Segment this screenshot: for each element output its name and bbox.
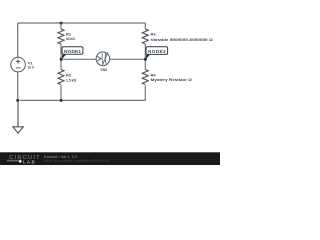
wire middle column between node and R2 [60, 59, 62, 69]
footer watermark bar [0, 152, 220, 165]
svg-text:NODE2: NODE2 [148, 49, 166, 54]
resistor R2 [58, 70, 64, 85]
resistor R4 [142, 70, 148, 85]
wire middle column R1 lead top [60, 24, 62, 30]
junction dot node B [144, 58, 147, 61]
wire right column R3 lead top [144, 24, 146, 29]
footer logo diamond [18, 159, 22, 163]
junction dot bottom of middle column [60, 99, 63, 102]
svg-text:Variable 5000000-6000000 Ω: Variable 5000000-6000000 Ω [151, 37, 214, 42]
junction dot ground [16, 99, 19, 102]
resistor R3 [142, 29, 148, 44]
wire top rail [18, 23, 146, 25]
svg-text:10 V: 10 V [28, 64, 35, 69]
wire bottom rail [20, 99, 146, 101]
junction dot node A [60, 58, 63, 61]
node NODE1 tag [61, 47, 83, 60]
wire voltmeter right segment [110, 58, 146, 60]
svg-text:VM1: VM1 [100, 67, 108, 72]
wire voltmeter left segment [61, 58, 96, 60]
voltmeter VM1 [96, 52, 110, 66]
svg-text:1.5 kΩ: 1.5 kΩ [66, 77, 77, 82]
svg-text:R3: R3 [151, 32, 157, 37]
wire middle column R2 lead bottom [60, 86, 62, 101]
footer logo waveform squiggle [7, 160, 19, 161]
node NODE2 tag [145, 47, 167, 60]
wire left column upper [17, 24, 19, 57]
wire right column between node and R4 [144, 59, 146, 69]
wire right column R4 lead bottom [144, 86, 146, 101]
resistor R1 [58, 29, 64, 44]
voltage source V1 [11, 57, 26, 72]
svg-text:44 kΩ: 44 kΩ [66, 36, 76, 41]
junction dot top of middle column [60, 22, 63, 25]
wire left column lower [17, 72, 19, 101]
ground [13, 101, 23, 133]
svg-text:http://circuitlab.com/c6mu45bs: http://circuitlab.com/c6mu45bsc343 [44, 159, 109, 163]
svg-text:LAB: LAB [23, 159, 36, 164]
svg-text:NODE1: NODE1 [64, 49, 81, 54]
wire right column between R3 and node [144, 44, 146, 59]
svg-text:Mystery Resistor Ω: Mystery Resistor Ω [151, 77, 193, 82]
wire middle column between R1 and node [60, 44, 62, 59]
